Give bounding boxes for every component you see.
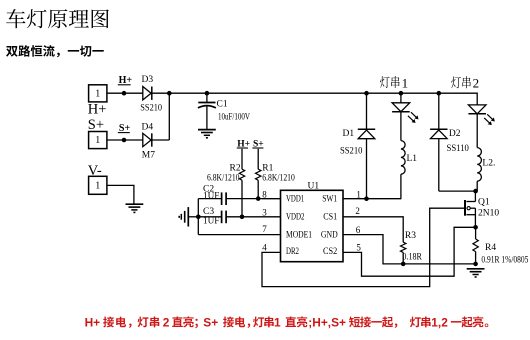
svg-text:CS1: CS1 bbox=[323, 212, 337, 222]
svg-text:6.8K/1210: 6.8K/1210 bbox=[207, 173, 240, 183]
label M7 bbox=[142, 150, 155, 160]
led LED1 bbox=[392, 103, 418, 123]
svg-text:SS110: SS110 bbox=[447, 144, 470, 154]
label D3 bbox=[142, 75, 154, 85]
pin name MODE1 bbox=[286, 230, 312, 240]
title 车灯原理图 bbox=[6, 9, 109, 28]
junction rail-D2 bbox=[437, 91, 442, 96]
pin name SW1 bbox=[322, 194, 337, 204]
label D4 bbox=[142, 122, 154, 132]
svg-text:5: 5 bbox=[356, 243, 361, 253]
inductor L2 bbox=[477, 148, 481, 182]
wire R1 to VDD1 line bbox=[257, 180, 259, 198]
label Q1 2N10 bbox=[478, 208, 499, 218]
svg-text:D4: D4 bbox=[142, 122, 154, 132]
connector P3 V- bbox=[89, 176, 107, 194]
label C1 bbox=[217, 99, 228, 109]
net label H+ (R2) bbox=[237, 140, 250, 150]
capacitor C3 bbox=[198, 211, 280, 224]
net label S+ (R1) bbox=[252, 140, 263, 150]
label R3 0.18R bbox=[402, 252, 422, 262]
pin name DR2 bbox=[286, 247, 299, 257]
label U1 bbox=[308, 182, 320, 192]
ground left (rotated) bbox=[179, 207, 198, 226]
pin name GND bbox=[321, 230, 338, 240]
junction rail-D1 bbox=[364, 91, 369, 96]
pin name CS2 bbox=[323, 247, 338, 257]
wire D1 branch bbox=[366, 93, 368, 199]
label L1 bbox=[407, 154, 418, 164]
svg-text:1: 1 bbox=[402, 75, 409, 90]
svg-text:;H+,S+: ;H+,S+ bbox=[308, 315, 346, 329]
svg-text:2: 2 bbox=[473, 76, 480, 91]
svg-text:H+: H+ bbox=[88, 102, 107, 118]
svg-text:VDD2: VDD2 bbox=[286, 212, 305, 222]
wire H+ net to R2 bbox=[241, 149, 243, 169]
svg-text:DR2: DR2 bbox=[286, 247, 299, 257]
label R3 bbox=[405, 231, 416, 241]
wire MODE1 bbox=[198, 234, 280, 236]
wire V- to ground bbox=[107, 185, 134, 204]
resistor R4 bbox=[473, 227, 478, 264]
wire D4 node up to rail bbox=[168, 93, 170, 141]
junction rail-D3D4 bbox=[167, 91, 172, 96]
svg-text:VDD1: VDD1 bbox=[286, 194, 304, 204]
svg-text:1UF: 1UF bbox=[203, 190, 219, 200]
wire R2 to VDD2 line bbox=[241, 180, 243, 217]
svg-text:GND: GND bbox=[321, 230, 338, 240]
connector P1 H+ bbox=[89, 85, 107, 102]
junction SW1-D1 bbox=[364, 196, 369, 201]
wire C2C3 left bus bbox=[197, 199, 199, 235]
label Q1 bbox=[478, 198, 490, 208]
svg-text:R3: R3 bbox=[405, 231, 416, 241]
svg-text:6: 6 bbox=[356, 225, 361, 235]
wire L1 to SW1 bbox=[400, 174, 402, 199]
junction D2-L2-Q1 bbox=[473, 189, 478, 194]
svg-text:Q1: Q1 bbox=[478, 198, 490, 208]
wire pin8 stub bbox=[262, 198, 281, 200]
diode D2 bbox=[430, 129, 447, 138]
label V- bbox=[88, 163, 102, 179]
svg-text:3: 3 bbox=[262, 207, 267, 217]
svg-text:H+: H+ bbox=[85, 315, 101, 329]
led LED2 bbox=[468, 105, 494, 125]
svg-text:R4: R4 bbox=[485, 243, 496, 253]
svg-text:7: 7 bbox=[262, 224, 267, 234]
svg-text:1: 1 bbox=[95, 89, 100, 100]
svg-text:CS2: CS2 bbox=[323, 247, 338, 257]
junction R3-gndrail bbox=[401, 262, 406, 267]
svg-text:6.8K/1210: 6.8K/1210 bbox=[262, 173, 295, 183]
diode D4 bbox=[143, 133, 152, 146]
svg-text:1UF: 1UF bbox=[203, 215, 219, 225]
junction R1-VDD1 bbox=[256, 196, 261, 201]
wire S+ net to R1 bbox=[257, 149, 259, 169]
label 灯串2 bbox=[451, 76, 479, 91]
label 10uF/100V bbox=[218, 112, 250, 122]
connector P2 S+ bbox=[89, 132, 107, 149]
diode D1 bbox=[358, 129, 375, 138]
capacitor C2 bbox=[198, 192, 280, 205]
svg-text:D1: D1 bbox=[343, 129, 355, 139]
svg-text:SW1: SW1 bbox=[322, 194, 337, 204]
svg-text:0.91R 1%/0805: 0.91R 1%/0805 bbox=[481, 254, 528, 264]
label 灯串1 bbox=[380, 75, 408, 90]
pin number 7 bbox=[262, 224, 267, 234]
transistor Q1 bbox=[465, 191, 475, 227]
junction Q1source-R4 bbox=[473, 225, 478, 230]
diode D3 bbox=[143, 87, 152, 100]
pin number 5 bbox=[356, 243, 361, 253]
wire D4 to node bbox=[152, 139, 169, 141]
label D1 SS210 bbox=[340, 147, 363, 157]
pin number 8 bbox=[262, 189, 267, 199]
capacitor C1 bbox=[198, 93, 216, 129]
junction R4-gndrail bbox=[473, 262, 478, 267]
junction R2-VDD2 bbox=[240, 215, 245, 220]
junction S+ node bbox=[122, 138, 127, 143]
pin name VDD2 bbox=[286, 212, 305, 222]
inductor L1 bbox=[401, 141, 405, 175]
label R1 bbox=[262, 164, 273, 174]
svg-text:10uF/100V: 10uF/100V bbox=[218, 112, 250, 122]
svg-text:1: 1 bbox=[95, 135, 100, 146]
svg-text:4: 4 bbox=[262, 242, 267, 252]
resistor R1 bbox=[256, 169, 261, 180]
svg-text:V-: V- bbox=[88, 163, 102, 179]
wire R3 to gnd rail bbox=[402, 252, 404, 264]
svg-text:SS210: SS210 bbox=[140, 103, 162, 113]
label C2 1UF bbox=[203, 190, 219, 200]
wire D3 to node bbox=[152, 92, 169, 94]
wire D2 branch bbox=[439, 93, 476, 191]
resistor R3 bbox=[401, 242, 406, 252]
wire pin4 DR2 to gate bbox=[262, 208, 464, 286]
svg-text:S+: S+ bbox=[203, 315, 218, 329]
wire H+ to D3 bbox=[107, 92, 143, 94]
svg-text:2: 2 bbox=[355, 206, 360, 216]
junction bus-C3 bbox=[196, 215, 201, 220]
svg-text:M7: M7 bbox=[142, 150, 155, 160]
pin number 1 bbox=[356, 189, 361, 199]
svg-text:MODE1: MODE1 bbox=[286, 230, 312, 240]
svg-text:2N10: 2N10 bbox=[478, 208, 499, 218]
svg-text:L2.: L2. bbox=[482, 158, 495, 168]
wire LED1 to L1 bbox=[400, 112, 402, 141]
label R2 6.8K/1210 bbox=[207, 173, 240, 183]
wire LED2 to L2 bbox=[476, 114, 478, 148]
label S+ bbox=[88, 117, 104, 133]
svg-text:C1: C1 bbox=[217, 99, 228, 109]
svg-text:L1: L1 bbox=[407, 154, 418, 164]
ground R4 bbox=[467, 269, 485, 277]
label R4 bbox=[485, 243, 496, 253]
svg-text:SS210: SS210 bbox=[340, 147, 363, 157]
wire S+ to D4 bbox=[107, 139, 143, 141]
pin number 3 bbox=[262, 207, 267, 217]
svg-text:1: 1 bbox=[356, 189, 361, 199]
svg-text:S+: S+ bbox=[88, 117, 104, 133]
wire L2 to Q1 drain bbox=[476, 181, 478, 191]
svg-text:D2: D2 bbox=[449, 129, 461, 139]
ic U1 body bbox=[281, 190, 344, 261]
wire GND pin6 rail bbox=[343, 235, 476, 264]
label D1 bbox=[343, 129, 355, 139]
label R4 0.91R 1%/0805 bbox=[481, 254, 528, 264]
label D2 bbox=[449, 129, 461, 139]
wire CS1 pin2 to R3 bbox=[343, 217, 403, 242]
label D2 SS110 bbox=[447, 144, 470, 154]
svg-text:8: 8 bbox=[262, 189, 267, 199]
svg-text:U1: U1 bbox=[308, 182, 320, 192]
label C3 bbox=[203, 207, 214, 217]
svg-text:1,2: 1,2 bbox=[431, 315, 448, 329]
wire SW1 pin1 bbox=[343, 198, 401, 200]
label R1 6.8K/1210 bbox=[262, 173, 295, 183]
pin number 4 bbox=[262, 242, 267, 252]
wire CS2 pin5 to R4 top bbox=[343, 227, 476, 276]
pin name CS1 bbox=[323, 212, 337, 222]
note red text bbox=[85, 315, 489, 329]
pin name VDD1 bbox=[286, 194, 304, 204]
svg-text:2: 2 bbox=[163, 315, 170, 329]
resistor R2 bbox=[239, 169, 244, 180]
svg-text:D3: D3 bbox=[142, 75, 154, 85]
label SS210 bbox=[140, 103, 162, 113]
pin number 2 bbox=[355, 206, 360, 216]
svg-text:1: 1 bbox=[274, 315, 281, 329]
net label S+ bbox=[118, 123, 131, 134]
label H+ bbox=[88, 102, 107, 118]
net label H+ bbox=[118, 75, 133, 86]
label C3 1UF bbox=[203, 215, 219, 225]
svg-text:0.18R: 0.18R bbox=[402, 252, 422, 262]
junction rail-C1 bbox=[205, 91, 210, 96]
label L2 bbox=[482, 158, 495, 168]
wire LED2 branch bbox=[476, 104, 478, 106]
junction H+ node bbox=[122, 91, 127, 96]
subtitle 双路恒流，一切一 bbox=[6, 45, 104, 57]
junction rail-LED1 bbox=[399, 91, 404, 96]
wire VIN rail bbox=[169, 93, 477, 105]
pin number 6 bbox=[356, 225, 361, 235]
svg-text:1: 1 bbox=[95, 181, 100, 192]
ground C1 bbox=[198, 130, 216, 138]
ground V- bbox=[126, 204, 144, 212]
wire LED1 branch bbox=[400, 93, 402, 103]
label C2 bbox=[203, 184, 214, 194]
label R2 bbox=[230, 164, 241, 174]
